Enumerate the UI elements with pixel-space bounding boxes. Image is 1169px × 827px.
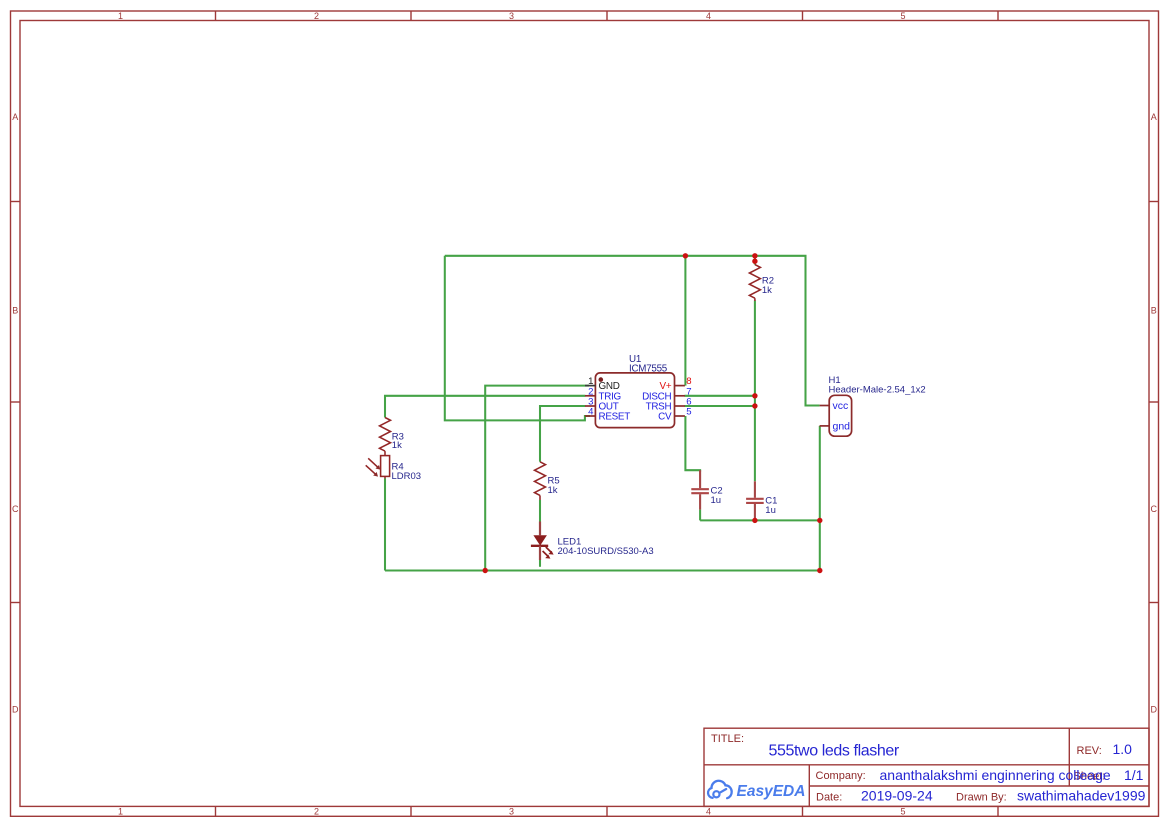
svg-text:D: D [12,705,19,715]
U1 pin names [599,381,673,422]
H1 pin names [833,400,851,432]
svg-text:C: C [1150,504,1157,514]
svg-text:swathimahadev1999: swathimahadev1999 [1017,788,1146,804]
wire LED cathode to bottom rail [539,560,541,567]
resistor R5 labels [548,475,560,496]
wire R2 top stub [754,256,756,265]
svg-text:1.0: 1.0 [1113,741,1133,757]
LED1 [531,522,554,561]
H1 reference labels [829,375,926,396]
wire R2 bottom to C1 [754,301,756,482]
photoresistor R4 labels [392,462,422,482]
resistor R5 [535,462,546,500]
svg-text:vcc: vcc [833,400,849,412]
svg-text:4: 4 [706,11,711,21]
svg-text:1: 1 [118,807,123,817]
svg-text:LDR03: LDR03 [392,471,422,482]
capacitor C1 labels [765,496,777,517]
svg-text:ananthalakshmi enginnering col: ananthalakshmi enginnering colleage [880,767,1111,783]
svg-text:4: 4 [588,407,594,418]
resistor R3 labels [392,431,404,451]
svg-text:1: 1 [118,11,123,21]
svg-text:5: 5 [686,407,691,418]
svg-text:TITLE:: TITLE: [711,733,744,745]
junction TRSH net [752,403,757,408]
wire R4 bottom to bottom rail [384,479,386,571]
junction bottom rail / GND wire [483,568,488,573]
R4 arrowheads [376,465,381,470]
wire V+ vertical to pin 8 [684,256,686,386]
svg-text:CV: CV [658,412,672,423]
svg-text:1k: 1k [392,440,402,451]
junction C1 bottom [752,518,757,523]
photoresistor R4 (LDR) [366,456,390,479]
U1 pin stubs [585,386,685,416]
header H1 [820,395,852,436]
capacitor C1 [746,481,764,520]
svg-text:D: D [1150,705,1157,715]
svg-text:Company:: Company: [816,770,866,782]
svg-text:2019-09-24: 2019-09-24 [861,788,933,804]
svg-text:B: B [1151,305,1157,315]
svg-text:555two leds flasher: 555two leds flasher [769,742,900,759]
resistor R2 labels [762,275,774,296]
title block texts [711,733,1102,804]
svg-text:ICM7555: ICM7555 [629,364,668,375]
svg-text:1k: 1k [548,485,558,496]
resistor R2 [749,265,760,301]
LED1 labels [558,536,654,557]
resistor R3 [380,418,391,456]
svg-text:1/1: 1/1 [1124,767,1144,783]
junction R2 pin [752,259,757,264]
svg-text:204-10SURD/S530-A3: 204-10SURD/S530-A3 [558,546,654,557]
svg-text:A: A [1151,112,1157,122]
U1 reference labels [629,354,668,375]
junction bottom rail right end [817,568,822,573]
wire capacitor bottom rail [700,519,820,521]
svg-text:A: A [12,112,18,122]
svg-text:2: 2 [314,11,319,21]
svg-text:B: B [12,305,18,315]
junction dots [483,253,823,573]
wire DISCH pin 7 to R2 net [685,395,755,397]
svg-text:C: C [12,504,19,514]
capacitor C2 [691,470,709,509]
svg-text:Header-Male-2.54_1x2: Header-Male-2.54_1x2 [829,385,926,396]
svg-text:3: 3 [509,807,514,817]
wire CV pin 5 to C2 [685,416,700,472]
wire TRIG pin 2 to R3 [385,396,585,418]
svg-text:1u: 1u [711,495,722,506]
wire left vertical to RESET pin 4 [445,256,590,421]
capacitor C2 labels [711,485,723,506]
junction DISCH net [752,393,757,398]
wire TRSH pin 6 to R2 net [685,405,755,407]
wire GND pin 1 to bottom rail [485,386,589,571]
svg-text:gnd: gnd [833,420,851,432]
op-amp U1 body (555 timer IC) [595,373,674,428]
svg-text:5: 5 [900,807,905,817]
svg-text:5: 5 [900,11,905,21]
wire C2 bottom stub [699,510,701,521]
EasyEDA logo [708,781,805,800]
junction top rail / R2 [752,253,757,258]
svg-text:Drawn By:: Drawn By: [956,791,1007,803]
svg-text:2: 2 [314,807,319,817]
wire top rail from node A to vcc branch [445,256,820,406]
svg-text:1u: 1u [765,505,776,516]
svg-text:1k: 1k [762,285,772,296]
U1 pin numbers [588,376,691,417]
svg-text:4: 4 [706,807,711,817]
wire gnd header to bottom rail [819,426,821,571]
wire OUT pin 3 to R5 [540,406,585,462]
svg-text:Date:: Date: [816,791,842,803]
wire R5 bottom to LED [539,500,541,522]
title block lines [704,728,1149,806]
svg-text:REV:: REV: [1077,745,1102,757]
svg-text:RESET: RESET [599,412,631,423]
wire bottom rail [385,569,820,571]
svg-text:EasyEDA: EasyEDA [737,783,806,800]
junction top rail / V+ [683,253,688,258]
junction cap rail / gnd wire [817,518,822,523]
svg-text:3: 3 [509,11,514,21]
